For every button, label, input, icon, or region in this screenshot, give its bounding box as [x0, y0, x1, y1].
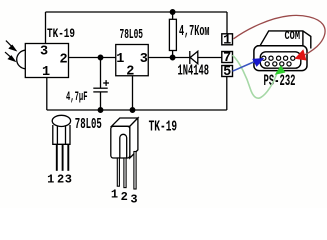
78L05 package TO-92 — [52, 115, 70, 144]
svg-text:PS-232: PS-232 — [264, 72, 296, 90]
svg-text:1: 1 — [223, 34, 231, 49]
red wire pin1 to DB9 — [234, 15, 326, 57]
svg-text:3: 3 — [130, 192, 137, 206]
blue wire pin5 to DB9 — [233, 61, 257, 71]
svg-text:4,7µF: 4,7µF — [66, 89, 88, 104]
DB9 holes bottom row — [265, 62, 291, 66]
svg-text:3: 3 — [140, 52, 148, 67]
svg-text:1: 1 — [42, 65, 50, 80]
DB9 pin box 5 — [222, 66, 233, 77]
svg-text:78L05: 78L05 — [75, 117, 102, 133]
DB9 holes top row — [262, 56, 295, 60]
wire top bus — [46, 11, 228, 13]
svg-text:TK-19: TK-19 — [149, 120, 178, 136]
DB9 pin box 7 — [222, 52, 233, 63]
green arrowhead — [275, 65, 286, 75]
wire 78L05 pin2 down — [132, 76, 134, 110]
TK-19 package — [111, 118, 138, 158]
svg-text:3: 3 — [40, 44, 48, 59]
wire TK-19 pin1 down — [46, 78, 48, 111]
node junction R1 top — [170, 10, 175, 15]
svg-text:1N4148: 1N4148 — [178, 64, 210, 80]
wire TK-19 pin3 up — [45, 12, 47, 44]
node junction 78L05 pin2 — [130, 108, 135, 113]
wire TK-19 pin2 to 78L05 pin1 — [69, 57, 116, 59]
svg-text:1: 1 — [47, 173, 54, 187]
DB9 pin box 1 — [222, 34, 233, 45]
capacitor C1 4,7uF — [93, 58, 109, 111]
svg-text:78L05: 78L05 — [120, 28, 144, 43]
IR light arrows — [5, 41, 16, 61]
svg-text:2: 2 — [121, 190, 128, 204]
wire diode to pin7 box — [198, 57, 222, 59]
node junction C1 top — [98, 55, 103, 60]
blue arrowhead — [252, 58, 264, 67]
wire top bus to DB9 pin1 box — [226, 12, 228, 34]
svg-text:2: 2 — [126, 64, 134, 79]
node junction R1 bottom — [170, 55, 175, 60]
svg-text:3: 3 — [65, 173, 72, 187]
78L05 package legs — [57, 144, 69, 171]
DB9 face inner D — [260, 52, 301, 68]
svg-text:1: 1 — [111, 187, 118, 201]
svg-text:5: 5 — [223, 65, 231, 80]
TK-19 package legs — [117, 152, 136, 190]
diode VD1 1N4148 — [190, 51, 198, 64]
wire bottom bus — [47, 109, 227, 111]
IR receiver U1 TK-19 — [17, 44, 69, 78]
node junction C1 bottom — [98, 108, 103, 113]
DB9 connector shell COM — [257, 31, 311, 49]
svg-text:1: 1 — [116, 52, 124, 67]
svg-text:2: 2 — [57, 173, 64, 187]
green wire pin7 to DB9 — [233, 55, 277, 98]
regulator U2 78L05 — [116, 45, 149, 76]
red arrowhead — [295, 49, 307, 60]
svg-text:2: 2 — [60, 53, 68, 68]
svg-text:4,7Ком: 4,7Ком — [179, 24, 210, 40]
DB9 face outer — [254, 46, 307, 71]
svg-text:COM: COM — [285, 30, 301, 43]
svg-text:TK-19: TK-19 — [47, 26, 75, 41]
resistor R1 4,7kOhm — [169, 12, 176, 58]
wire 78L05 pin3 to R1 bottom — [148, 57, 189, 59]
wire pin5 box down — [226, 77, 228, 111]
svg-text:7: 7 — [223, 51, 231, 66]
